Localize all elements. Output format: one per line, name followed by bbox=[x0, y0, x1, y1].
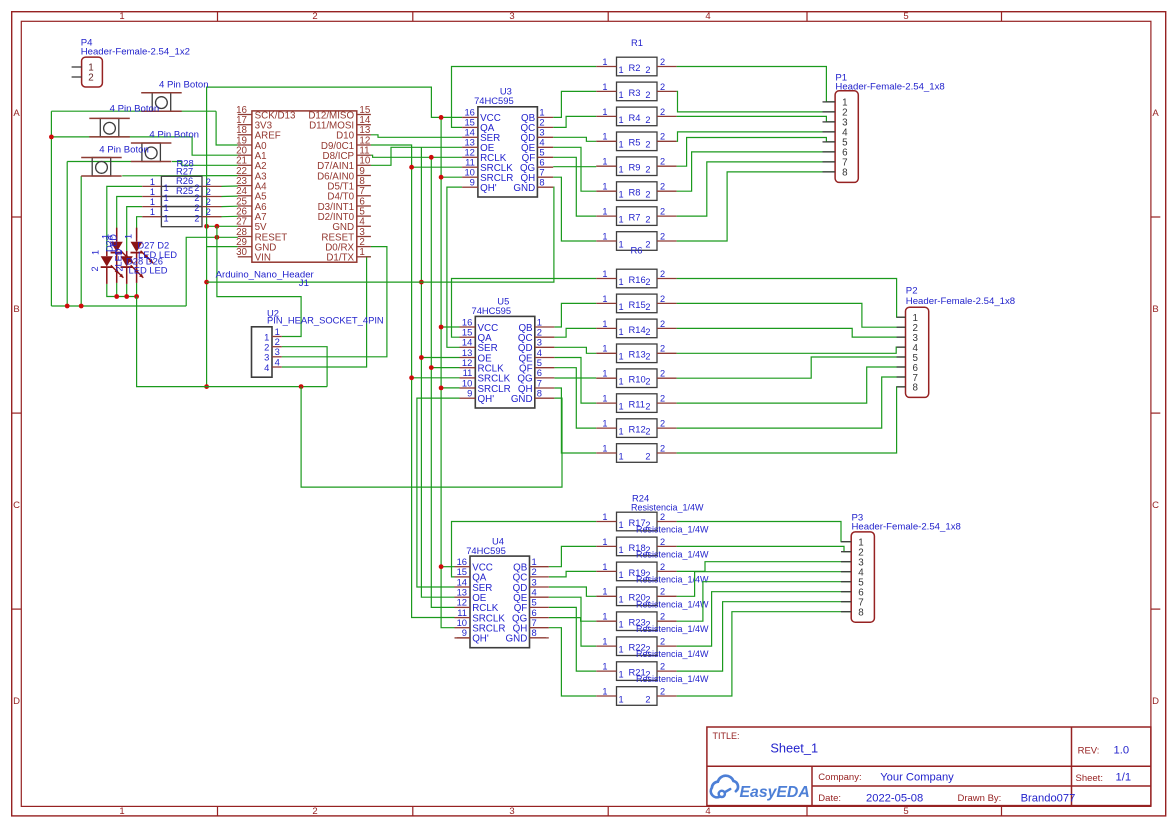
resistor R9 bbox=[596, 157, 676, 176]
svg-text:5: 5 bbox=[903, 11, 908, 22]
resistor G1 unnamed 8 bbox=[596, 231, 676, 250]
wire VCC branch U5 bbox=[441, 326, 459, 328]
svg-text:1: 1 bbox=[602, 82, 607, 92]
svg-text:Header-Female-2.54_1x8: Header-Female-2.54_1x8 bbox=[835, 82, 944, 93]
svg-text:2: 2 bbox=[645, 451, 650, 461]
junction OE rail282 bbox=[419, 280, 424, 285]
svg-text:Resistencia_1/4W: Resistencia_1/4W bbox=[636, 525, 709, 535]
svg-text:Resistencia_1/4W: Resistencia_1/4W bbox=[636, 549, 709, 559]
wire RCLK branch U5 bbox=[431, 367, 459, 369]
svg-text:1: 1 bbox=[359, 247, 364, 258]
wire SRCLR branch U5 bbox=[441, 387, 459, 389]
wire R3 to P1 pin2 bbox=[677, 91, 836, 112]
wire U4 QG to row5 bbox=[549, 618, 596, 622]
connector P3 Header-Female-2.54_1x8 bbox=[841, 512, 961, 622]
switch S2 4 Pin Boton bbox=[89, 104, 159, 137]
ic J1 Arduino_Nano_Header bbox=[216, 105, 371, 289]
wire A6 row bbox=[222, 205, 238, 207]
svg-text:74HC595: 74HC595 bbox=[474, 95, 514, 106]
svg-text:R10: R10 bbox=[629, 374, 646, 385]
svg-text:1: 1 bbox=[602, 419, 607, 429]
wire GND row J1 bbox=[207, 246, 238, 248]
svg-text:2: 2 bbox=[645, 277, 650, 287]
svg-text:Date:: Date: bbox=[818, 793, 841, 804]
junction SRCLR U5 bbox=[439, 386, 444, 391]
svg-text:1: 1 bbox=[602, 369, 607, 379]
wire R20 to P3 pin4 bbox=[677, 572, 852, 597]
wire U4 QC to row3 bbox=[549, 571, 596, 577]
svg-text:8: 8 bbox=[532, 627, 537, 638]
svg-text:Resistencia_1/4W: Resistencia_1/4W bbox=[636, 624, 709, 634]
svg-text:2022-05-08: 2022-05-08 bbox=[866, 792, 923, 804]
svg-text:1: 1 bbox=[619, 302, 624, 312]
wire VCC-SRCLR net vertical bbox=[441, 117, 454, 627]
wire button3 to A2 bbox=[172, 162, 238, 166]
wire U4 QH to row8 bbox=[549, 628, 596, 696]
svg-text:VIN: VIN bbox=[255, 253, 271, 264]
svg-text:Your Company: Your Company bbox=[880, 771, 954, 783]
svg-text:Resistencia_1/4W: Resistencia_1/4W bbox=[636, 574, 709, 584]
svg-text:2: 2 bbox=[312, 11, 317, 22]
svg-text:2: 2 bbox=[660, 612, 665, 622]
svg-text:2: 2 bbox=[660, 537, 665, 547]
svg-text:QH': QH' bbox=[472, 634, 489, 645]
resistor R13 bbox=[596, 344, 676, 363]
resistor R2 bbox=[596, 57, 676, 76]
wire U3 QD to row4 bbox=[553, 137, 596, 141]
junction rail306 x67 bbox=[65, 304, 70, 309]
svg-text:1: 1 bbox=[602, 512, 607, 522]
wire U4 QE to row6 bbox=[549, 597, 596, 646]
wire SRCLK branch U3 bbox=[412, 166, 463, 168]
svg-text:2: 2 bbox=[206, 207, 211, 217]
svg-text:LED: LED bbox=[114, 248, 124, 266]
svg-text:1: 1 bbox=[150, 177, 155, 187]
svg-text:R11: R11 bbox=[629, 399, 646, 410]
svg-text:2: 2 bbox=[645, 165, 650, 175]
svg-text:1: 1 bbox=[619, 140, 624, 150]
wire R5 to P1 pin4 bbox=[677, 132, 836, 141]
svg-text:QH': QH' bbox=[480, 183, 497, 194]
svg-text:1: 1 bbox=[164, 183, 169, 193]
junction RCLK U3 bbox=[429, 155, 434, 160]
resistor R12 bbox=[596, 419, 676, 438]
wire D8 to RCLK net bbox=[371, 155, 462, 157]
resistor G2 unnamed 8 bbox=[596, 443, 676, 462]
svg-text:2: 2 bbox=[645, 140, 650, 150]
svg-text:2: 2 bbox=[645, 694, 650, 704]
svg-text:74HC595: 74HC595 bbox=[466, 545, 506, 556]
wire stack row4 to LED D2 column bbox=[137, 217, 143, 238]
wire U3 QA to row1 bbox=[452, 67, 597, 128]
wire U3 QHp cascade to U5 SER bbox=[447, 187, 462, 347]
svg-text:1: 1 bbox=[164, 193, 169, 203]
junction led rail 1 bbox=[114, 294, 119, 299]
wire R6 to P1 pin8 bbox=[677, 172, 836, 241]
svg-text:1: 1 bbox=[91, 250, 101, 255]
wire R18 to P3 pin2 bbox=[677, 546, 852, 551]
wire U5 QF to row7 bbox=[554, 368, 596, 428]
wire U3 QF to row7 bbox=[553, 157, 596, 216]
junction x206 rail386 bbox=[204, 384, 209, 389]
resistor stack R25-R28 bbox=[142, 157, 221, 226]
junction SRCLK U3 bbox=[409, 165, 414, 170]
resistor R3 bbox=[596, 82, 676, 101]
resistor R16 bbox=[596, 269, 676, 288]
wire rail306 riser to RESET row bbox=[186, 237, 238, 306]
svg-text:1: 1 bbox=[619, 595, 624, 605]
svg-text:R2: R2 bbox=[629, 62, 641, 73]
wire R23 to P3 pin5 bbox=[677, 582, 852, 622]
svg-text:EasyEDA: EasyEDA bbox=[740, 784, 810, 801]
svg-text:Sheet_1: Sheet_1 bbox=[770, 741, 818, 756]
wire U4 QF to row7 bbox=[549, 607, 596, 671]
junction button2 rail bbox=[49, 135, 54, 140]
wire U5 QE to row6 bbox=[554, 358, 596, 404]
junction led rail 3 bbox=[134, 294, 139, 299]
svg-text:2: 2 bbox=[645, 302, 650, 312]
svg-text:9: 9 bbox=[467, 388, 472, 399]
wire U2 pin2 drop to rail386 bbox=[282, 347, 327, 387]
svg-text:4 Pin Boton: 4 Pin Boton bbox=[159, 80, 209, 91]
svg-text:1: 1 bbox=[164, 213, 169, 223]
svg-text:2: 2 bbox=[645, 327, 650, 337]
junction RCLK U5 bbox=[429, 365, 434, 370]
wire button2 bottom to A1 bbox=[51, 136, 192, 138]
wire button4 to A3 bbox=[122, 175, 238, 177]
junction VCC U4 bbox=[439, 564, 444, 569]
svg-text:R4: R4 bbox=[629, 112, 641, 123]
svg-text:2: 2 bbox=[660, 512, 665, 522]
svg-text:TITLE:: TITLE: bbox=[713, 731, 740, 741]
wire R14 to P2 pin3 bbox=[677, 328, 906, 337]
ic U2 PIN_HEAR_SOCKET_4PIN bbox=[252, 307, 384, 377]
title block bbox=[707, 727, 1151, 806]
svg-text:1: 1 bbox=[619, 239, 624, 249]
svg-text:GND: GND bbox=[513, 183, 535, 194]
svg-text:2: 2 bbox=[194, 213, 199, 223]
ic U3 74HC595 bbox=[462, 86, 553, 197]
junction led rail 2 bbox=[124, 294, 129, 299]
wire common rail y306 bbox=[51, 305, 186, 307]
svg-text:30: 30 bbox=[236, 247, 247, 258]
svg-text:1: 1 bbox=[619, 327, 624, 337]
svg-text:2: 2 bbox=[660, 587, 665, 597]
svg-text:R15: R15 bbox=[629, 299, 646, 310]
unconnected stub U4 GND bbox=[530, 637, 547, 639]
wire R7 to P1 pin7 bbox=[677, 162, 836, 216]
wire U5 QG to row5 bbox=[554, 377, 596, 379]
resistor R20 bbox=[596, 587, 709, 610]
wire D9 SRCLK net vertical bbox=[371, 145, 455, 618]
wire button1 bottom to rail and A0 bbox=[51, 110, 216, 112]
svg-text:A: A bbox=[13, 108, 20, 119]
wire R11 to P2 pin6 bbox=[677, 367, 906, 403]
svg-text:1: 1 bbox=[602, 612, 607, 622]
svg-text:2: 2 bbox=[645, 215, 650, 225]
svg-text:1: 1 bbox=[124, 234, 134, 239]
svg-text:2: 2 bbox=[206, 177, 211, 187]
wire vertical x216 to U2 feed bbox=[217, 226, 301, 336]
wire long vertical x206 with VCC feed bbox=[207, 87, 463, 387]
svg-text:1: 1 bbox=[619, 427, 624, 437]
svg-text:1: 1 bbox=[619, 190, 624, 200]
ic U4 74HC595 bbox=[455, 535, 549, 647]
svg-text:4 Pin Boton: 4 Pin Boton bbox=[99, 144, 149, 155]
wire SRCLK branch U5 bbox=[412, 377, 460, 379]
wire button3 vertical x67 bbox=[66, 162, 68, 307]
junction 5V x206 bbox=[204, 224, 209, 229]
svg-text:1: 1 bbox=[602, 107, 607, 117]
svg-text:R1: R1 bbox=[631, 37, 643, 48]
svg-text:2: 2 bbox=[660, 686, 665, 696]
resistor R22 bbox=[596, 637, 709, 660]
led D28 bbox=[101, 251, 124, 284]
svg-text:2: 2 bbox=[206, 197, 211, 207]
wire RCLK net vertical bbox=[431, 157, 454, 607]
resistor R4 bbox=[596, 107, 676, 126]
svg-text:1: 1 bbox=[619, 402, 624, 412]
svg-text:B: B bbox=[1152, 304, 1158, 315]
svg-text:2: 2 bbox=[660, 294, 665, 304]
svg-text:1: 1 bbox=[602, 132, 607, 142]
svg-text:2: 2 bbox=[660, 637, 665, 647]
svg-text:2: 2 bbox=[660, 57, 665, 67]
svg-text:1.0: 1.0 bbox=[1114, 745, 1130, 757]
svg-text:4: 4 bbox=[705, 806, 710, 817]
svg-text:2: 2 bbox=[194, 183, 199, 193]
svg-text:9: 9 bbox=[470, 177, 475, 188]
wire U5 QD to row4 bbox=[554, 347, 596, 353]
svg-text:1: 1 bbox=[150, 197, 155, 207]
wire R15 to P2 pin2 bbox=[677, 303, 906, 327]
wire VCC branch U4 bbox=[441, 566, 454, 568]
svg-text:2: 2 bbox=[645, 377, 650, 387]
svg-text:Company:: Company: bbox=[818, 772, 861, 783]
junction rail386 x301 bbox=[299, 384, 304, 389]
svg-text:D: D bbox=[1152, 696, 1159, 707]
svg-text:2: 2 bbox=[660, 82, 665, 92]
resistor R23 bbox=[596, 612, 709, 635]
svg-text:3: 3 bbox=[509, 11, 514, 22]
switch S1 4 Pin Boton bbox=[141, 80, 208, 112]
svg-text:2: 2 bbox=[645, 239, 650, 249]
svg-text:3: 3 bbox=[509, 806, 514, 817]
wire A5 row to R25 stack bbox=[222, 195, 238, 197]
wire R22 to P3 pin6 bbox=[677, 592, 852, 646]
svg-text:R3: R3 bbox=[629, 87, 641, 98]
svg-text:8: 8 bbox=[539, 177, 544, 188]
svg-text:R14: R14 bbox=[629, 324, 646, 335]
wire rail487 descent bbox=[301, 387, 562, 488]
wire blank resistor to P3 pin8 bbox=[677, 612, 852, 696]
svg-text:R16: R16 bbox=[629, 274, 646, 285]
resistor R14 bbox=[596, 319, 676, 338]
wire U5 QC to row3 bbox=[554, 328, 596, 337]
switch S4 4 Pin Boton bbox=[81, 144, 149, 176]
svg-text:2: 2 bbox=[312, 806, 317, 817]
resistor G3 unnamed 8 bbox=[596, 686, 676, 705]
svg-text:1: 1 bbox=[164, 203, 169, 213]
wire D7 to OE net bbox=[371, 147, 462, 165]
resistor R8 bbox=[596, 182, 676, 201]
svg-text:4 Pin Boton: 4 Pin Boton bbox=[149, 129, 199, 140]
svg-text:A: A bbox=[1152, 108, 1159, 119]
resistor R18 bbox=[596, 537, 709, 560]
wire led rail descent to rail386 bbox=[137, 297, 328, 387]
svg-text:2: 2 bbox=[88, 73, 93, 84]
svg-text:1: 1 bbox=[602, 231, 607, 241]
svg-text:1: 1 bbox=[602, 182, 607, 192]
svg-text:Header-Female-2.54_1x8: Header-Female-2.54_1x8 bbox=[906, 296, 1015, 307]
svg-text:1: 1 bbox=[602, 662, 607, 672]
svg-text:Drawn By:: Drawn By: bbox=[958, 793, 1002, 804]
svg-text:2: 2 bbox=[660, 132, 665, 142]
svg-text:Sheet:: Sheet: bbox=[1076, 773, 1103, 784]
svg-text:Brando077: Brando077 bbox=[1021, 792, 1076, 804]
svg-text:1: 1 bbox=[119, 806, 124, 817]
svg-text:8: 8 bbox=[842, 168, 848, 179]
connector P1 Header-Female-2.54_1x8 bbox=[823, 72, 945, 182]
wire U5 QB to row2 bbox=[554, 303, 596, 327]
svg-text:1/1: 1/1 bbox=[1116, 772, 1132, 784]
svg-text:2: 2 bbox=[660, 369, 665, 379]
svg-text:2: 2 bbox=[660, 662, 665, 672]
led D27 bbox=[111, 228, 134, 283]
wire U4 QA to row1 bbox=[452, 522, 597, 577]
wire U3 QH to row8 bbox=[553, 177, 596, 241]
junction x206 rail282 bbox=[204, 280, 209, 285]
svg-text:2: 2 bbox=[645, 115, 650, 125]
resistor R7 bbox=[596, 207, 676, 226]
svg-text:1: 1 bbox=[602, 562, 607, 572]
svg-text:J1: J1 bbox=[299, 278, 309, 289]
svg-text:1: 1 bbox=[602, 57, 607, 67]
svg-text:R25: R25 bbox=[176, 185, 193, 196]
svg-text:2: 2 bbox=[660, 344, 665, 354]
wire U4 QD to row4 bbox=[549, 587, 596, 596]
wire stack row3 to LED D26 column bbox=[127, 207, 143, 253]
svg-text:74HC595: 74HC595 bbox=[471, 305, 511, 316]
svg-text:1: 1 bbox=[619, 670, 624, 680]
svg-text:2: 2 bbox=[194, 193, 199, 203]
wire rail282 GND bbox=[207, 187, 554, 282]
svg-text:2: 2 bbox=[645, 65, 650, 75]
svg-text:1: 1 bbox=[150, 187, 155, 197]
svg-text:1: 1 bbox=[602, 319, 607, 329]
wire SRCLR branch U3 bbox=[441, 176, 462, 178]
led D2 bbox=[131, 228, 154, 283]
junction SRCLR U3 bbox=[439, 175, 444, 180]
svg-text:QH': QH' bbox=[478, 394, 495, 405]
svg-text:Resistencia_1/4W: Resistencia_1/4W bbox=[636, 649, 709, 659]
svg-text:2: 2 bbox=[660, 443, 665, 453]
svg-text:C: C bbox=[1152, 500, 1159, 511]
wire R10 to P2 pin5 bbox=[677, 357, 906, 378]
svg-text:8: 8 bbox=[537, 388, 542, 399]
svg-text:1: 1 bbox=[619, 451, 624, 461]
wire stack row2 to LED D27 column bbox=[117, 197, 143, 238]
junction VCC U5 bbox=[439, 325, 444, 330]
resistor R17 bbox=[596, 512, 709, 535]
switch S3 4 Pin Boton bbox=[131, 129, 199, 161]
svg-text:1: 1 bbox=[619, 115, 624, 125]
svg-text:2: 2 bbox=[645, 90, 650, 100]
svg-text:2: 2 bbox=[660, 107, 665, 117]
connector P2 Header-Female-2.54_1x8 bbox=[897, 286, 1016, 398]
svg-text:LED LED: LED LED bbox=[129, 264, 168, 275]
svg-text:2: 2 bbox=[660, 269, 665, 279]
wire U3 QE to row6 bbox=[553, 147, 596, 191]
wire stack row1 to LED D28 column bbox=[107, 186, 142, 252]
svg-text:1: 1 bbox=[602, 344, 607, 354]
svg-text:1: 1 bbox=[619, 377, 624, 387]
svg-text:R12: R12 bbox=[629, 424, 646, 435]
junction SRCLK U5 bbox=[409, 375, 414, 380]
svg-text:1: 1 bbox=[619, 620, 624, 630]
svg-text:2: 2 bbox=[660, 157, 665, 167]
wire A4 row to R26 stack bbox=[222, 185, 238, 187]
svg-text:1: 1 bbox=[619, 570, 624, 580]
svg-text:1: 1 bbox=[119, 11, 124, 22]
wire LED cathode rail y296 bbox=[107, 284, 137, 297]
svg-text:1: 1 bbox=[619, 277, 624, 287]
unconnected stub U4 QH' bbox=[457, 637, 470, 639]
svg-text:2: 2 bbox=[645, 402, 650, 412]
svg-text:2: 2 bbox=[660, 231, 665, 241]
resistor R11 bbox=[596, 394, 676, 413]
svg-text:8: 8 bbox=[913, 383, 919, 394]
svg-text:2: 2 bbox=[645, 427, 650, 437]
resistor R10 bbox=[596, 369, 676, 388]
wire R9 to P1 pin5 bbox=[677, 138, 836, 167]
svg-text:1: 1 bbox=[619, 90, 624, 100]
svg-text:2: 2 bbox=[660, 319, 665, 329]
svg-text:1: 1 bbox=[602, 686, 607, 696]
svg-text:GND: GND bbox=[506, 634, 528, 645]
wire U2 pin3 to D0/RX bbox=[282, 247, 387, 357]
wire R2 to P1 pin1 bbox=[677, 67, 836, 102]
svg-text:R5: R5 bbox=[629, 137, 641, 148]
svg-text:4 Pin Boton: 4 Pin Boton bbox=[110, 104, 160, 115]
svg-text:D1/TX: D1/TX bbox=[326, 253, 354, 264]
wire button4 vertical x81 bbox=[80, 176, 82, 306]
svg-text:1: 1 bbox=[602, 269, 607, 279]
svg-text:4: 4 bbox=[264, 362, 269, 373]
svg-text:2: 2 bbox=[660, 207, 665, 217]
svg-text:1: 1 bbox=[619, 545, 624, 555]
svg-text:1: 1 bbox=[619, 520, 624, 530]
svg-text:REV:: REV: bbox=[1078, 746, 1100, 757]
wire U4 QB to row2 bbox=[549, 546, 596, 566]
wire OE branch U5 bbox=[421, 357, 459, 359]
wire U5 QHp cascade to U4 SER bbox=[417, 398, 460, 587]
svg-text:1: 1 bbox=[602, 587, 607, 597]
svg-text:2: 2 bbox=[660, 394, 665, 404]
svg-text:1: 1 bbox=[602, 157, 607, 167]
svg-text:2: 2 bbox=[660, 562, 665, 572]
svg-text:1: 1 bbox=[619, 694, 624, 704]
junction VCC U3 bbox=[439, 115, 444, 120]
svg-text:1: 1 bbox=[602, 537, 607, 547]
svg-text:1: 1 bbox=[602, 394, 607, 404]
svg-text:4: 4 bbox=[705, 11, 710, 22]
wire R8 to P1 pin6 bbox=[677, 152, 836, 191]
wire R21 to P3 pin7 bbox=[677, 602, 852, 671]
connector P4 Header-Female-2.54_1x2 bbox=[72, 37, 190, 87]
svg-text:Resistencia_1/4W: Resistencia_1/4W bbox=[636, 599, 709, 609]
svg-text:Header-Female-2.54_1x2: Header-Female-2.54_1x2 bbox=[81, 47, 190, 58]
